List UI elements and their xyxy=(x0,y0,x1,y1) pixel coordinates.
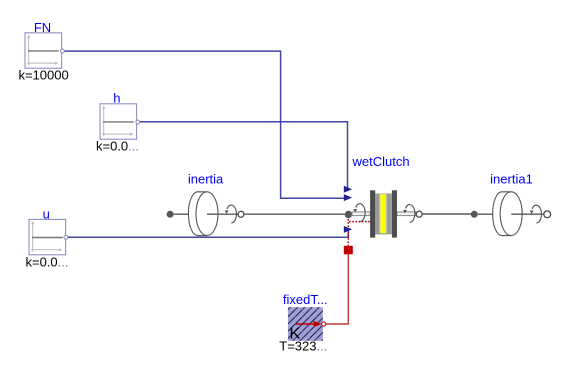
svg-text:h: h xyxy=(113,90,120,105)
svg-text:wetClutch: wetClutch xyxy=(352,154,410,169)
svg-text:u: u xyxy=(43,206,50,221)
svg-text:T=323...: T=323... xyxy=(279,339,327,354)
svg-text:k=10000: k=10000 xyxy=(18,68,68,83)
svg-text:k=0.0...: k=0.0... xyxy=(25,255,68,270)
svg-text:k=0.0...: k=0.0... xyxy=(96,139,139,154)
svg-text:inertia1: inertia1 xyxy=(490,172,533,187)
svg-text:FN: FN xyxy=(34,20,51,35)
svg-text:fixedT...: fixedT... xyxy=(283,292,328,307)
svg-text:inertia: inertia xyxy=(188,172,224,187)
